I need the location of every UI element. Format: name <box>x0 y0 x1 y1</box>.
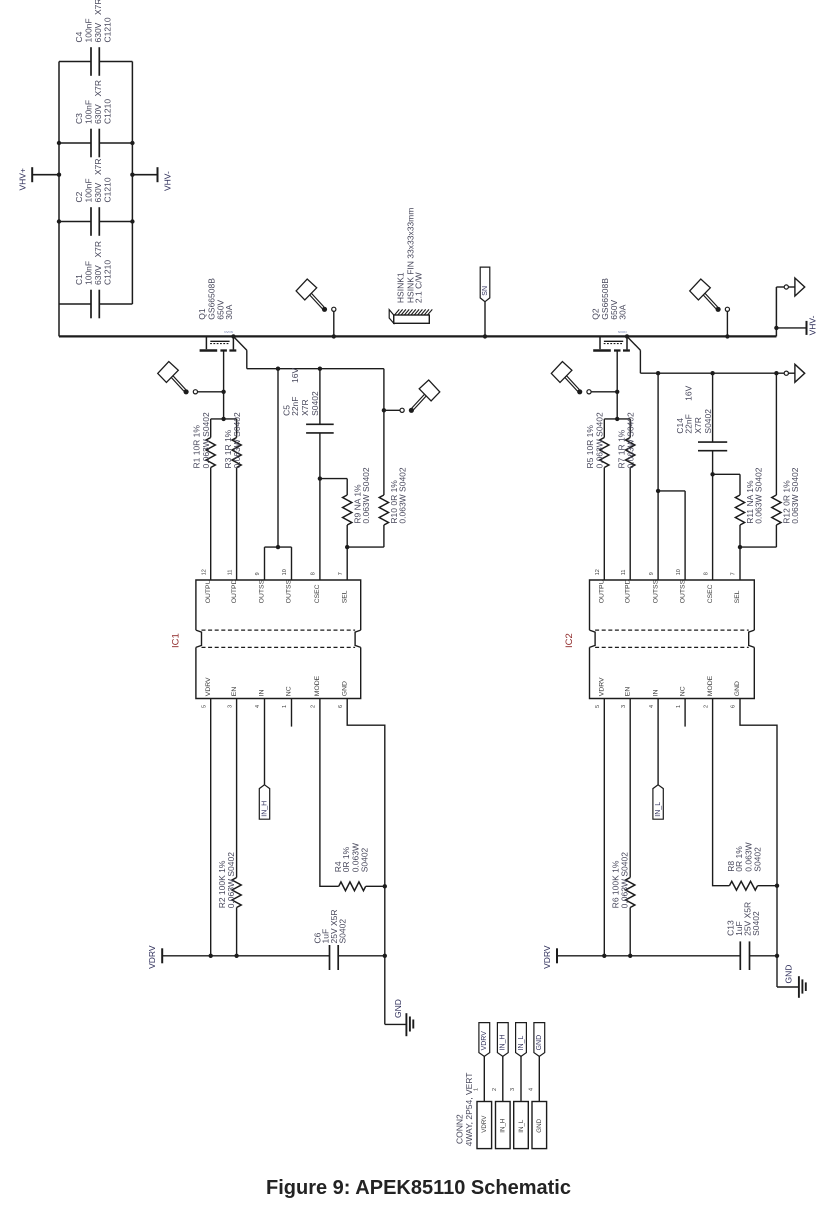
wire - IC1 NC pin 1 stub <box>291 699 293 727</box>
IC2 pin 5 (VDRV) <box>595 677 606 708</box>
power terminal VHV+ <box>18 167 59 190</box>
test probe at R10 node <box>382 380 440 413</box>
svg-text:C3: C3 <box>74 113 84 124</box>
junction dots on HV rails <box>57 141 135 224</box>
svg-text:S0402: S0402 <box>703 409 713 434</box>
IC2 pin 12 (OUTPU) <box>595 569 606 603</box>
capacitor C13 (1uF 25V X5R S0402) <box>726 902 780 970</box>
power terminal VHV- (right edge) <box>774 315 817 335</box>
IC1 pin 11 (OUTPD) <box>227 570 238 604</box>
svg-text:S0402: S0402 <box>310 391 320 416</box>
transistor Q2 (GS66508B 650V 30A) <box>591 278 630 351</box>
net flag IN_L (CONN2 pin 3) <box>516 1023 527 1057</box>
svg-text:Q1: Q1 <box>197 308 207 320</box>
svg-text:X7R: X7R <box>693 417 703 434</box>
svg-text:6: 6 <box>731 705 737 708</box>
svg-text:IN: IN <box>259 689 266 696</box>
svg-text:IN_H: IN_H <box>261 801 268 817</box>
IC2 pin 3 (EN) <box>621 687 632 708</box>
svg-text:0.063W S0402: 0.063W S0402 <box>626 412 636 469</box>
svg-text:IC2: IC2 <box>564 633 575 648</box>
capacitor C5 (22nF 16V X7R S0402) <box>282 367 334 581</box>
svg-text:1: 1 <box>473 1088 479 1091</box>
capacitor C14 (22nF 16V X7R S0402) <box>675 371 727 580</box>
wire - right HV rail <box>131 62 133 305</box>
svg-text:HSINK1: HSINK1 <box>395 272 405 303</box>
svg-text:SEL: SEL <box>734 590 741 603</box>
wire - IC2 NC pin 1 stub <box>684 699 686 727</box>
svg-text:EN: EN <box>624 687 631 697</box>
IC2 pin 8 (CSEC) <box>703 572 714 603</box>
svg-text:X7R: X7R <box>93 241 103 258</box>
svg-text:2: 2 <box>492 1088 498 1091</box>
svg-text:0.063W S0402: 0.063W S0402 <box>201 412 211 469</box>
svg-text:SEL: SEL <box>341 590 348 603</box>
wire - Q2 gate net vertical <box>616 351 618 419</box>
svg-text:7: 7 <box>731 572 737 575</box>
svg-text:630V: 630V <box>93 104 103 124</box>
svg-text:S0402: S0402 <box>360 847 370 872</box>
net flag IN_H (CONN2 pin 2) <box>497 1023 508 1057</box>
svg-text:16V: 16V <box>290 368 300 383</box>
net flag VDRV (CONN2 pin 1) <box>479 1023 490 1057</box>
svg-text:GND: GND <box>536 1118 543 1132</box>
svg-text:4: 4 <box>528 1088 534 1091</box>
resistor R9 (NA 1% 0.063W S0402) <box>318 467 371 580</box>
svg-text:CSEC: CSEC <box>314 584 321 603</box>
svg-text:OUTSS: OUTSS <box>652 579 659 603</box>
capacitor C3 (100nF 630V C1210 X7R) <box>59 80 132 157</box>
svg-text:GND: GND <box>734 681 741 696</box>
IC2 pin 9 (OUTSS) <box>649 572 660 603</box>
svg-text:4: 4 <box>649 705 655 708</box>
wire - VDRV rail (left) <box>162 954 329 958</box>
IC1 pin 8 (CSEC) <box>311 572 322 603</box>
CONN2 pin 4 (GND) <box>528 1088 546 1149</box>
net flag SN <box>480 267 490 338</box>
svg-text:IN_L: IN_L <box>655 802 662 817</box>
svg-text:VDRV: VDRV <box>147 945 157 969</box>
test probe on bus near Q1 <box>296 279 336 339</box>
svg-text:IN_H: IN_H <box>500 1034 507 1050</box>
CONN2 pin 3 (IN_L) <box>510 1088 528 1149</box>
svg-text:IN_L: IN_L <box>518 1119 525 1133</box>
svg-text:9: 9 <box>255 572 261 575</box>
wire - IC2 MODE pin 2 to R8 <box>713 699 730 886</box>
resistor R10 (0R 1% 0.063W S0402) <box>347 369 407 547</box>
svg-text:10: 10 <box>282 569 288 575</box>
wire - IC2 GND pin 6 to ground net <box>740 699 777 988</box>
svg-text:8: 8 <box>703 572 709 575</box>
svg-text:IN_H: IN_H <box>500 1119 507 1133</box>
IC2 pin 6 (GND) <box>731 681 742 708</box>
svg-text:OUTPD: OUTPD <box>624 579 631 603</box>
svg-text:X7R: X7R <box>300 399 310 416</box>
svg-text:OUTSS: OUTSS <box>679 579 686 603</box>
net flag IN_L <box>653 785 663 819</box>
svg-text:X7R: X7R <box>93 80 103 97</box>
svg-text:C1210: C1210 <box>103 260 113 285</box>
wire - feed to IC2 pin 10 <box>658 491 685 580</box>
svg-text:12: 12 <box>595 569 601 575</box>
wire - Q1 source diagonal to gate-drive net <box>234 337 247 369</box>
IC1 pin 2 (MODE) <box>311 675 322 708</box>
svg-text:3: 3 <box>510 1088 516 1091</box>
IC1 pin 9 (OUTSS) <box>255 572 266 603</box>
IC1 pin 4 (IN) <box>255 689 266 708</box>
svg-text:OUTSS: OUTSS <box>286 579 293 603</box>
output terminal (lower, banana jack) <box>774 364 805 382</box>
svg-text:NC: NC <box>679 686 686 696</box>
svg-text:16V: 16V <box>684 385 694 400</box>
svg-text:S0402: S0402 <box>338 919 348 944</box>
power terminal VDRV (left) <box>147 945 162 969</box>
svg-text:0.063W S0402: 0.063W S0402 <box>790 467 800 524</box>
svg-text:GND: GND <box>784 965 794 984</box>
svg-text:EN: EN <box>231 687 238 697</box>
wire - Q1 gate net vertical <box>223 351 225 419</box>
IC1 pin 10 (OUTSS) <box>282 569 293 603</box>
svg-text:S0402: S0402 <box>753 847 763 872</box>
svg-text:C1210: C1210 <box>103 99 113 124</box>
svg-text:GND: GND <box>393 999 403 1018</box>
svg-text:0.063W S0402: 0.063W S0402 <box>361 467 371 524</box>
svg-text:NC: NC <box>286 686 293 696</box>
wire - CONN2 pin 2 <box>502 1056 504 1101</box>
resistor R8 (0R 1% 0.063W S0402) <box>726 842 779 890</box>
svg-text:CSEC: CSEC <box>707 584 714 603</box>
svg-text:30A: 30A <box>617 304 627 319</box>
wire - Q2 source net horizontal <box>640 372 784 374</box>
IC1 pin 5 (VDRV) <box>201 677 212 708</box>
svg-text:C2: C2 <box>74 191 84 202</box>
svg-text:1: 1 <box>282 705 288 708</box>
svg-text:0.063W S0402: 0.063W S0402 <box>595 412 605 469</box>
CONN2 pin 1 (VDRV) <box>473 1088 491 1149</box>
gate driver IC2 <box>564 580 754 699</box>
svg-text:6: 6 <box>338 705 344 708</box>
svg-text:C4: C4 <box>74 31 84 42</box>
svg-text:X7R: X7R <box>93 0 103 15</box>
svg-text:12: 12 <box>201 569 207 575</box>
svg-text:2.1 C/W: 2.1 C/W <box>414 272 424 303</box>
svg-text:C1: C1 <box>74 274 84 285</box>
capacitor C6 (1uF 25V X5R S0402) <box>313 909 387 970</box>
wire - feed to IC1 pins 9/10 bridge <box>265 367 292 581</box>
svg-text:3: 3 <box>227 705 233 708</box>
svg-text:VDRV: VDRV <box>542 945 552 969</box>
resistor R5 (10R 1% 0.063W S0402) <box>585 412 609 580</box>
wire - IC1 MODE pin 2 to R4 <box>320 699 339 887</box>
IC1 pin 6 (GND) <box>338 681 349 708</box>
svg-text:630V: 630V <box>93 265 103 285</box>
svg-text:C1210: C1210 <box>103 17 113 42</box>
svg-text:CONN2: CONN2 <box>455 1114 465 1144</box>
svg-text:30A: 30A <box>224 304 234 319</box>
gate driver IC1 <box>170 580 360 699</box>
ground symbol GND (right) <box>777 965 806 998</box>
wire - left HV rail <box>58 62 60 337</box>
svg-text:VHV+: VHV+ <box>18 168 28 190</box>
svg-text:0.063W S0402: 0.063W S0402 <box>226 852 236 909</box>
svg-text:0.063W S0402: 0.063W S0402 <box>232 412 242 469</box>
net flag IN_H <box>259 785 269 819</box>
svg-text:GND: GND <box>341 681 348 696</box>
IC2 pin 11 (OUTPD) <box>621 570 632 604</box>
svg-text:NVON: NVON <box>224 330 233 334</box>
svg-text:SN: SN <box>482 286 489 296</box>
svg-text:OUTPD: OUTPD <box>231 579 238 603</box>
svg-text:VHV-: VHV- <box>163 171 173 191</box>
resistor R7 (1R 1% 0.063W S0402) <box>616 412 635 580</box>
test probe at Q2 gate <box>551 362 619 395</box>
heatsink HSINK1 (HSINK FIN 33x33x33mm, 2.1 C/W) <box>389 208 432 324</box>
svg-text:VDRV: VDRV <box>599 677 606 696</box>
svg-text:OUTPU: OUTPU <box>205 579 212 603</box>
svg-text:VDRV: VDRV <box>481 1031 488 1051</box>
svg-text:630V: 630V <box>93 182 103 202</box>
svg-text:IN: IN <box>652 689 659 696</box>
svg-text:9: 9 <box>649 572 655 575</box>
svg-text:VHV-: VHV- <box>808 315 818 335</box>
resistor R2 (100K 1% 0.063W S0402) <box>217 699 241 956</box>
connector CONN2 (4WAY, 2P54, VERT) <box>455 1073 475 1147</box>
resistor R1 (10R 1% 0.063W S0402) <box>192 412 216 580</box>
svg-text:8: 8 <box>311 572 317 575</box>
output terminal (top, banana jack) <box>776 278 804 296</box>
svg-text:630V: 630V <box>93 22 103 42</box>
wire - gate branch to R1/R3 <box>211 417 237 421</box>
svg-text:7: 7 <box>338 572 344 575</box>
svg-text:0.063W S0402: 0.063W S0402 <box>753 467 763 524</box>
svg-text:S0402: S0402 <box>751 911 761 936</box>
svg-text:3: 3 <box>621 705 627 708</box>
svg-text:C1210: C1210 <box>103 177 113 202</box>
test probe on bus near Q2 <box>690 279 730 339</box>
svg-text:VDRV: VDRV <box>481 1115 488 1133</box>
wire - IC2 VDRV pin 5 to VDRV rail <box>603 699 605 956</box>
IC1 pin 3 (EN) <box>227 687 238 708</box>
wire - IC2 IN pin 4 <box>657 699 659 785</box>
svg-text:4: 4 <box>255 705 261 708</box>
transistor Q1 (GS66508B 650V 30A) <box>197 278 236 351</box>
IC1 pin 7 (SEL) <box>338 572 349 603</box>
IC2 pin 4 (IN) <box>649 689 660 708</box>
power terminal VDRV (right) <box>542 945 557 969</box>
wire - IC1 IN pin 4 <box>264 699 266 785</box>
svg-text:IN_L: IN_L <box>518 1036 525 1051</box>
test probe at Q1 gate <box>158 362 226 395</box>
capacitor C4 (100nF 630V C1210 X7R) <box>59 0 132 76</box>
resistor R3 (1R 1% 0.063W S0402) <box>223 412 242 580</box>
svg-text:1: 1 <box>676 705 682 708</box>
IC2 pin 1 (NC) <box>676 686 687 708</box>
wire - Q1 source net horizontal <box>247 368 384 370</box>
caption <box>9 1177 819 1200</box>
resistor R6 (100K 1% 0.063W S0402) <box>611 699 635 956</box>
resistor R12 (0R 1% 0.063W S0402) <box>740 373 800 547</box>
svg-text:IC1: IC1 <box>170 633 181 648</box>
svg-text:5: 5 <box>595 705 601 708</box>
IC2 pin 2 (MODE) <box>703 675 714 708</box>
svg-text:11: 11 <box>227 570 233 576</box>
svg-text:11: 11 <box>621 570 627 576</box>
svg-text:OUTSS: OUTSS <box>259 579 266 603</box>
power terminal VHV- (upper) <box>132 167 172 191</box>
svg-text:NVON: NVON <box>618 330 627 334</box>
ground symbol GND (left) <box>385 999 414 1036</box>
svg-text:0.063W S0402: 0.063W S0402 <box>397 467 407 524</box>
wire - Q2 source diagonal to gate-drive net <box>628 337 641 373</box>
svg-text:Q2: Q2 <box>591 308 601 320</box>
svg-text:R5 10R 1%: R5 10R 1% <box>585 425 595 469</box>
wire - IC1 GND pin 6 to ground net <box>347 699 385 1025</box>
wire - feed to IC2 pin 9 <box>656 371 660 580</box>
net flag GND (CONN2 pin 4) <box>534 1023 545 1057</box>
capacitor C2 (100nF 630V C1210 X7R) <box>59 158 132 235</box>
svg-text:OUTPU: OUTPU <box>599 579 606 603</box>
wire - IC1 VDRV pin 5 to VDRV rail <box>210 699 212 956</box>
svg-text:0.063W S0402: 0.063W S0402 <box>620 852 630 909</box>
IC1 pin 12 (OUTPU) <box>201 569 212 603</box>
capacitor C1 (100nF 630V C1210 X7R) <box>59 241 132 318</box>
IC1 pin 1 (NC) <box>282 686 293 708</box>
svg-text:MODE: MODE <box>707 675 714 696</box>
wire - CONN2 pin 4 <box>538 1056 540 1101</box>
wire - main VHV bus <box>59 335 776 337</box>
svg-text:VDRV: VDRV <box>205 677 212 696</box>
wire - VDRV rail (right) <box>557 954 740 958</box>
wire - CONN2 pin 1 <box>483 1056 485 1101</box>
svg-text:R1 10R 1%: R1 10R 1% <box>192 425 202 469</box>
svg-text:10: 10 <box>676 569 682 575</box>
svg-text:MODE: MODE <box>314 675 321 696</box>
IC2 pin 10 (OUTSS) <box>676 569 687 603</box>
wire - CONN2 pin 3 <box>520 1056 522 1101</box>
resistor R11 (NA 1% 0.063W S0402) <box>710 467 763 580</box>
wire - bus riser to output terminal <box>775 287 777 336</box>
wire - gate branch to R5/R7 <box>604 417 630 421</box>
resistor R4 (0R 1% 0.063W S0402) <box>333 843 387 891</box>
svg-text:2: 2 <box>703 705 709 708</box>
svg-text:5: 5 <box>201 705 207 708</box>
svg-text:GND: GND <box>536 1035 543 1051</box>
svg-text:X7R: X7R <box>93 158 103 175</box>
IC2 pin 7 (SEL) <box>731 572 742 603</box>
svg-text:2: 2 <box>311 705 317 708</box>
svg-text:22nF: 22nF <box>290 397 300 416</box>
CONN2 pin 2 (IN_H) <box>492 1088 510 1149</box>
svg-text:4WAY, 2P54, VERT: 4WAY, 2P54, VERT <box>464 1073 474 1147</box>
